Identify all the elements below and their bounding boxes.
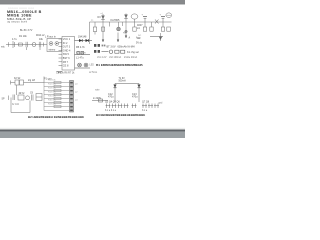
svg-text:trig in8: trig in8: [28, 79, 36, 82]
wire: speaker loop bottom: [11, 112, 30, 114]
svg-text:P1 con: P1 con: [44, 78, 52, 81]
pin stubs U1 pins 1-8: [59, 39, 63, 66]
svg-text:OUT 3: OUT 3: [63, 46, 71, 49]
wires: resistor ladder rows: [44, 83, 70, 111]
wire: secondary top: [115, 83, 139, 85]
svg-text:R13 10k: R13 10k: [48, 88, 57, 90]
wire: drop to row 2: [16, 85, 18, 95]
wire: speaker loop right: [29, 101, 31, 113]
wire: U1 pin to diode string: [75, 40, 93, 42]
svg-text:B2 HBEBREBBEH EBNEBBEREBBEHBE: B2 HBEBREBBEH EBNEBBEREBBEHBE: [28, 115, 84, 119]
arrow head node c3: [125, 36, 127, 39]
diode D4: [124, 14, 128, 33]
wire drop: [122, 22, 124, 26]
transistor Q10: [154, 104, 159, 109]
diode D3: [101, 14, 105, 33]
svg-text:5V dc: 5V dc: [136, 42, 143, 45]
switch K2 box: [15, 80, 19, 85]
svg-text:IN 2: IN 2: [63, 42, 68, 45]
svg-text:BL-5C 3.7V: BL-5C 3.7V: [20, 29, 33, 32]
svg-text:in 220V: in 220V: [93, 97, 102, 100]
wire: right secondary drop: [138, 84, 140, 103]
diode D2: [86, 39, 89, 42]
svg-text:500mA: 500mA: [119, 80, 127, 83]
svg-text:bz 102: bz 102: [12, 104, 20, 106]
svg-text:Q7 Q8: Q7 Q8: [142, 101, 150, 104]
wire: U1 pin 8 out: [75, 67, 91, 69]
wire: to ladder row 1: [24, 82, 45, 84]
wire drops from rail: [103, 32, 126, 42]
svg-text:BST 6: BST 6: [63, 57, 71, 60]
svg-text:FB 7: FB 7: [63, 61, 69, 64]
svg-text:L1 47u: L1 47u: [76, 57, 84, 60]
svg-text:R16 10k: R16 10k: [48, 100, 57, 102]
svg-text:R5 4.7k: R5 4.7k: [76, 46, 85, 49]
svg-text:K2 S2: K2 S2: [14, 78, 21, 80]
svg-text:4R bz: 4R bz: [19, 93, 26, 95]
svg-text:SP: SP: [2, 99, 6, 101]
svg-text:B3 EBNEBBERBEBBEHEBBREBBE: B3 EBNEBBERBEBBEHEBBREBBE: [96, 113, 145, 117]
svg-text:KA7805: KA7805: [111, 19, 121, 22]
wire: switch row: [102, 51, 109, 53]
wire: left secondary drop: [114, 84, 116, 103]
wire: U1 pin 5 out: [75, 54, 91, 56]
IC U1 box: [62, 37, 75, 71]
net label DC 5V: [138, 35, 142, 40]
ground: [57, 72, 63, 73]
capacitor C14: [13, 95, 15, 101]
resistor R18: [18, 95, 24, 100]
value label 4007 x4: [137, 24, 143, 30]
svg-text:Q3 Q4 Q5 Q6: Q3 Q4 Q5 Q6: [105, 101, 120, 104]
LED LD3: [117, 22, 121, 31]
speaker SP terminal: [8, 96, 10, 101]
resistor R8: [115, 50, 119, 53]
connector J1 dual jack: [47, 39, 62, 52]
capacitor C1: [13, 41, 14, 48]
arrow head node c1: [102, 40, 104, 43]
transistor Q6: [124, 104, 129, 109]
capacitor C15 twin box: [36, 94, 42, 101]
transistor Q7: [132, 104, 137, 109]
svg-text:1N4148: 1N4148: [78, 36, 87, 39]
svg-text:470u: 470u: [108, 96, 114, 99]
wire: top row feed: [11, 82, 16, 84]
svg-text:note: note: [95, 89, 100, 92]
pin pads P1: [70, 82, 73, 111]
svg-text:x2 5mm: x2 5mm: [89, 72, 97, 74]
resistor R10: [121, 50, 125, 53]
transistor Q4: [112, 104, 117, 109]
svg-text:470u: 470u: [132, 96, 138, 99]
capacitor C10 polarized: [142, 14, 148, 32]
svg-text:L R aux in: L R aux in: [45, 36, 56, 39]
fuse F2: [99, 99, 103, 102]
resistor R1: [19, 43, 23, 46]
svg-text:K1 chg sel: K1 chg sel: [127, 51, 139, 54]
connector P1 pin strip: [70, 81, 74, 113]
resistors R11-R17 bodies: [54, 81, 61, 107]
svg-text:B1 EBBRHEBNEREBBEMBEHB: B1 EBBRHEBNEREBBEMBEHB: [96, 63, 143, 67]
wire: speaker loop left: [10, 98, 12, 113]
value labels R11-R17: [48, 80, 57, 106]
pin labels U1: [63, 38, 71, 68]
wire: mic input chain: [6, 44, 47, 46]
note row ch1 ch2 trickle: [97, 56, 138, 59]
capacitor C5: [77, 52, 80, 55]
capacitor C9: [32, 95, 34, 101]
wire drop: [109, 22, 111, 27]
terminal tick top row: [10, 81, 12, 85]
battery BT1 cells: [94, 44, 105, 47]
resistor R3: [102, 27, 105, 31]
svg-text:ch1 4.2V: ch1 4.2V: [97, 56, 107, 59]
switch S1 cross: [155, 20, 159, 24]
svg-text:BT 3.6V: BT 3.6V: [107, 45, 116, 48]
svg-text:ug ampcu bcek: ug ampcu bcek: [7, 20, 28, 24]
switch K1 circle: [109, 50, 112, 53]
svg-text:R17 10k: R17 10k: [48, 104, 57, 106]
transistor Q8: [142, 104, 147, 109]
transistor Q3: [106, 104, 111, 109]
transistor Q9: [148, 104, 153, 109]
fuse F1: [93, 22, 96, 35]
svg-text:R15 10k: R15 10k: [48, 96, 57, 98]
wire: mains input: [92, 100, 108, 102]
svg-text:4.7u: 4.7u: [12, 38, 17, 41]
terminal tick node B: [43, 43, 45, 47]
svg-text:9014 x2: 9014 x2: [36, 34, 45, 37]
svg-text:GND 4: GND 4: [63, 49, 71, 52]
svg-text:R1 10k: R1 10k: [19, 35, 27, 38]
svg-text:R12 10k: R12 10k: [48, 84, 57, 86]
svg-text:b c e: b c e: [142, 109, 148, 112]
switch S2 box: [20, 80, 24, 85]
wire: top power rail: [90, 21, 172, 23]
input terminal tick: [8, 42, 10, 47]
motor M1: [166, 13, 172, 31]
battery BT2 cells: [94, 50, 100, 53]
svg-text:trickle 20mA: trickle 20mA: [124, 56, 138, 59]
svg-text:stereo: stereo: [49, 49, 56, 52]
transformer T1 label: [119, 78, 127, 83]
svg-text:R14 10k: R14 10k: [48, 92, 57, 94]
diode D6: [113, 85, 116, 88]
svg-text:LED: LED: [90, 65, 95, 67]
wire: left bus down: [89, 22, 91, 44]
transistor Q2: [26, 96, 30, 100]
value label C13 470u: [132, 93, 138, 99]
svg-text:b c e b c e: b c e b c e: [105, 109, 117, 112]
svg-text:CE 8: CE 8: [63, 65, 69, 68]
LED LD2: [84, 63, 88, 67]
diode D5 output: [150, 33, 163, 41]
arrow head node c2: [117, 40, 119, 43]
value label C12 470u: [108, 93, 114, 99]
capacitor C3: [39, 42, 41, 50]
transistor Q1: [32, 43, 36, 47]
svg-text:VCC 1: VCC 1: [63, 38, 71, 41]
svg-text:600mAh Ni-MH: 600mAh Ni-MH: [118, 45, 135, 48]
resistor R4: [150, 22, 153, 31]
transistor Q5: [118, 104, 123, 109]
svg-text:C8 10u R6 R7 1k: C8 10u R6 R7 1k: [56, 72, 75, 75]
diode D1: [79, 39, 82, 42]
diode D7: [137, 85, 140, 88]
LED LD1: [78, 63, 82, 67]
node junction dot: [125, 30, 127, 32]
capacitor C11 polarized: [160, 14, 166, 32]
svg-text:SW 5: SW 5: [63, 53, 70, 56]
capacitor C2: [26, 42, 27, 50]
wire: ladder feed: [43, 77, 45, 83]
transformer T2 coil: [131, 14, 138, 31]
svg-text:ch2 100mA: ch2 100mA: [109, 56, 121, 59]
capacitor C6: [81, 52, 84, 55]
